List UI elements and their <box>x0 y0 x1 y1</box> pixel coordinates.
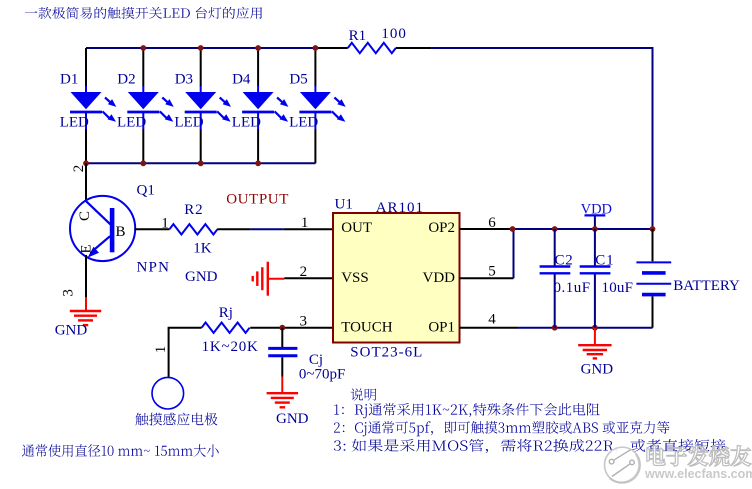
svg-text:0~70pF: 0~70pF <box>299 366 345 382</box>
ground main <box>594 328 596 345</box>
resistor R1 <box>348 43 396 53</box>
title <box>25 7 262 19</box>
touch electrode <box>152 377 184 409</box>
watermark logo <box>605 447 641 483</box>
svg-text:D1: D1 <box>60 72 78 88</box>
note line 3 <box>334 439 726 453</box>
svg-text:1K~20K: 1K~20K <box>202 339 259 355</box>
svg-text:B: B <box>116 224 126 240</box>
VDD power symbol <box>594 215 596 229</box>
wire top rail left (net) <box>86 47 315 49</box>
junction dots bottom rail <box>552 325 558 331</box>
svg-text:LED: LED <box>117 114 146 130</box>
svg-text:0.1uF: 0.1uF <box>554 280 591 296</box>
LED D3 <box>174 48 231 163</box>
svg-text:6: 6 <box>488 215 496 231</box>
note line 2 <box>334 421 669 436</box>
wire R1 left pin <box>315 47 347 49</box>
svg-text:10uF: 10uF <box>602 280 634 296</box>
svg-text:C2: C2 <box>555 253 574 269</box>
svg-text:2: 2 <box>300 264 308 280</box>
svg-text:www.elecfans.com: www.elecfans.com <box>644 467 752 481</box>
wire R2 right pin <box>217 228 250 230</box>
ground Cj <box>281 377 283 394</box>
svg-text:100: 100 <box>381 26 407 42</box>
svg-text:D2: D2 <box>117 72 135 88</box>
battery BT1 <box>652 229 654 261</box>
svg-text:NPN: NPN <box>137 259 171 275</box>
svg-text:OUTPUT: OUTPUT <box>226 191 289 207</box>
ground Q1 <box>85 297 87 311</box>
wire VDD rail <box>513 228 653 230</box>
svg-text:3: 3 <box>61 289 77 297</box>
wire Q1 base pin <box>135 228 170 230</box>
junction dots VDD rail <box>510 226 516 232</box>
svg-text:GND: GND <box>185 269 218 285</box>
wire Rj left pin <box>168 327 202 329</box>
wire top rail right (net) <box>432 47 653 49</box>
svg-text:OP1: OP1 <box>428 320 455 336</box>
wire collector <box>85 163 87 202</box>
svg-text:LED: LED <box>289 114 318 130</box>
wire U1 pin2 stub <box>284 277 333 279</box>
svg-text:E: E <box>79 244 95 253</box>
svg-text:TOUCH: TOUCH <box>341 320 393 336</box>
resistor Rj <box>202 323 250 333</box>
svg-text:2: 2 <box>71 165 87 173</box>
svg-text:Q1: Q1 <box>137 183 155 199</box>
svg-text:VSS: VSS <box>341 270 369 286</box>
ground (VSS, rotated) <box>267 262 269 296</box>
wire touch vertical <box>168 328 170 378</box>
capacitor Cj <box>281 328 283 347</box>
svg-text:OUT: OUT <box>341 220 372 236</box>
svg-text:3: 3 <box>300 313 308 329</box>
capacitor C1 <box>594 229 596 266</box>
wire U1 pin1 stub <box>284 228 333 230</box>
svg-text:D3: D3 <box>175 72 193 88</box>
note line 1 <box>334 403 600 418</box>
wire Rj right pin to U1 pin3 <box>250 327 333 329</box>
svg-text:VDD: VDD <box>423 270 456 286</box>
junction dots bottom rail <box>83 160 89 166</box>
wire U1 pin5 stub <box>460 277 514 279</box>
svg-text:BATTERY: BATTERY <box>673 278 740 294</box>
wire R1 right pin <box>396 47 432 49</box>
svg-text:C: C <box>77 211 93 221</box>
svg-text:Rj: Rj <box>219 305 233 321</box>
wire LED bottom rail <box>86 162 315 164</box>
svg-text:5: 5 <box>488 264 496 280</box>
electrode label <box>135 413 217 426</box>
svg-text:SOT23-6L: SOT23-6L <box>350 344 423 360</box>
svg-text:R2: R2 <box>184 202 203 218</box>
LED D2 <box>117 48 174 163</box>
svg-text:OP2: OP2 <box>428 220 455 236</box>
svg-text:D4: D4 <box>232 72 251 88</box>
wire emitter <box>85 255 87 297</box>
junction dots top rail <box>140 45 146 51</box>
wire U1 pin4 stub <box>460 327 518 329</box>
wire right vertical <box>652 47 654 229</box>
svg-text:D5: D5 <box>289 72 307 88</box>
svg-text:1: 1 <box>153 346 169 354</box>
svg-text:4: 4 <box>488 312 496 328</box>
wire net to U1 OUT <box>250 228 284 230</box>
LED D5 <box>289 48 346 163</box>
wire bottom rail <box>518 327 653 329</box>
LED D4 <box>232 48 289 163</box>
svg-text:GND: GND <box>276 411 309 427</box>
svg-text:GND: GND <box>581 361 614 377</box>
watermark text <box>647 446 751 467</box>
svg-text:AR101: AR101 <box>376 200 424 216</box>
capacitor C2 <box>554 229 556 266</box>
svg-text:LED: LED <box>60 114 89 130</box>
svg-text:1: 1 <box>161 216 169 232</box>
svg-text:1: 1 <box>301 215 309 231</box>
svg-text:R1: R1 <box>349 28 367 44</box>
LED D1 <box>60 48 117 163</box>
junction dot touch node <box>279 325 285 331</box>
notes heading <box>351 388 377 400</box>
svg-text:U1: U1 <box>335 196 353 212</box>
bottom note <box>22 444 219 457</box>
svg-text:1K: 1K <box>193 241 212 257</box>
wire U1 pin6 stub <box>460 228 513 230</box>
svg-text:GND: GND <box>55 322 88 338</box>
svg-text:LED: LED <box>174 114 203 130</box>
svg-text:LED: LED <box>232 114 261 130</box>
resistor R2 <box>169 224 217 234</box>
svg-text:VDD: VDD <box>581 202 612 218</box>
svg-text:C1: C1 <box>595 253 614 269</box>
op-amp U1 body <box>333 213 460 343</box>
wire pin5 riser <box>513 229 515 278</box>
transistor Q1 <box>70 196 135 261</box>
